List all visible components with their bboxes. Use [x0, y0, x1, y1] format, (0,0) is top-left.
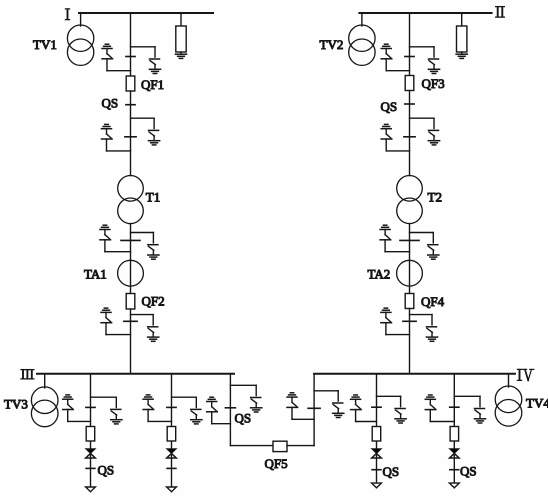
svg-text:TV1: TV1 — [33, 37, 57, 52]
svg-text:T1: T1 — [146, 190, 160, 205]
svg-text:QS: QS — [383, 464, 400, 479]
svg-text:TV2: TV2 — [320, 37, 344, 52]
svg-text:TA1: TA1 — [84, 267, 107, 282]
svg-text:QS: QS — [98, 463, 115, 478]
svg-text:TV4: TV4 — [526, 396, 548, 411]
svg-text:QF5: QF5 — [265, 456, 288, 471]
svg-text:QF3: QF3 — [422, 76, 445, 91]
svg-text:QS: QS — [102, 96, 119, 111]
svg-text:QS: QS — [381, 99, 398, 114]
svg-text:QS: QS — [235, 411, 252, 426]
svg-text:TA2: TA2 — [368, 267, 391, 282]
svg-text:QS: QS — [460, 464, 477, 479]
svg-text:T2: T2 — [428, 190, 442, 205]
svg-text:QF2: QF2 — [142, 294, 165, 309]
svg-text:QF1: QF1 — [141, 77, 164, 92]
svg-text:QF4: QF4 — [421, 294, 445, 309]
svg-text:TV3: TV3 — [4, 397, 28, 412]
